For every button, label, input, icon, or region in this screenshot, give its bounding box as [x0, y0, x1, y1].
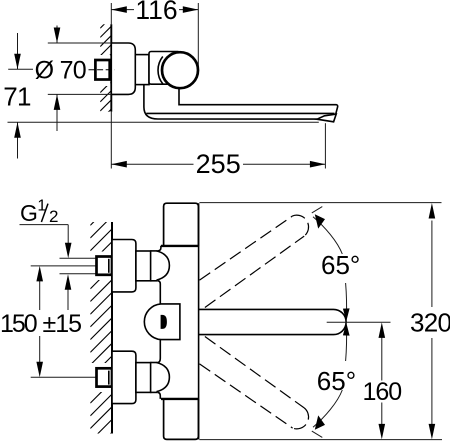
sensor window — [144, 304, 180, 340]
svg-text:116: 116 — [135, 0, 177, 25]
bottom inlet nut (front view) — [97, 368, 113, 386]
top inlet bell — [157, 251, 170, 280]
svg-text:Ø 70: Ø 70 — [35, 57, 86, 85]
body rear flange arc — [158, 57, 163, 84]
wall hatching (side view) — [100, 17, 111, 120]
spout (side view) — [179, 88, 338, 114]
dimension 160 — [362, 322, 401, 439]
nut centerline (side view) — [89, 69, 115, 71]
upper 65 degree arc — [313, 217, 342, 254]
extension line 320/160 bottom — [199, 439, 442, 441]
dimension 71 reference lines — [8, 68, 33, 70]
bottom inlet neck — [136, 363, 151, 393]
spout base and bottom (side view) — [144, 84, 317, 119]
svg-text:255: 255 — [196, 149, 241, 179]
extension line 320 top — [199, 202, 441, 204]
svg-text:2: 2 — [49, 207, 58, 226]
dimension 320 — [410, 203, 450, 439]
dimension 150 +-15 — [0, 266, 81, 377]
top inlet escutcheon (front view) — [112, 240, 136, 292]
dimension 116 — [111, 0, 198, 25]
top inlet neck edges to bell — [150, 250, 157, 252]
svg-text:160: 160 — [362, 378, 401, 406]
hatch cutout around top inlet — [90, 252, 111, 281]
spout centerline — [327, 321, 391, 323]
svg-text:65°: 65° — [321, 250, 360, 280]
wall line (front view) — [111, 222, 113, 434]
plus/minus 15 arrow — [67, 286, 69, 310]
spout (front view) — [199, 309, 347, 334]
svg-text:150: 150 — [0, 310, 37, 338]
bottom cap — [164, 399, 199, 440]
dimension line Ø70 extensions — [48, 42, 112, 44]
wall hatching (front view) — [90, 204, 111, 443]
svg-text:71: 71 — [3, 81, 31, 111]
dimension 255 — [111, 149, 325, 179]
mounting neck (side view) — [135, 55, 149, 85]
top inlet stub reference lines — [60, 257, 97, 259]
mixer body (side view) — [149, 52, 180, 85]
svg-text:±15: ±15 — [43, 310, 82, 338]
aerator tip (side view) — [317, 114, 336, 122]
sensor IR dot — [161, 315, 167, 329]
top inlet nut (front view) — [97, 257, 113, 275]
swivel range lower (dashed) — [200, 364, 293, 428]
G 1/2 label — [20, 198, 58, 227]
G1/2 leader line — [20, 224, 69, 226]
hatch cutout around bottom inlet — [90, 363, 111, 392]
body right edge — [198, 203, 200, 439]
bottom inlet bell — [157, 363, 170, 392]
inlet nut (side view) — [95, 60, 109, 80]
dimension 71 — [3, 33, 31, 159]
top cap — [164, 203, 199, 246]
svg-text:320: 320 — [410, 308, 450, 338]
escutcheon flange (side view) — [111, 43, 135, 94]
top inlet centerline — [31, 265, 97, 267]
extension line 116 right — [197, 3, 199, 68]
body left profile — [158, 246, 161, 251]
svg-text:G: G — [20, 200, 38, 226]
svg-text:65°: 65° — [317, 366, 356, 396]
dimension Ø70 — [35, 26, 86, 132]
spout underside contour — [146, 112, 334, 114]
swivel range upper (dashed) — [200, 216, 293, 280]
bottom inlet escutcheon — [112, 351, 136, 403]
body face circle — [162, 52, 198, 88]
bottom inlet neck edges to bell — [150, 362, 157, 364]
top inlet neck — [136, 251, 151, 281]
wall line (side view) — [110, 24, 112, 111]
extension line 116 left / 255 left (wall axis) — [110, 3, 112, 24]
bottom inlet centerline — [31, 376, 97, 378]
lower 65 degree arc — [313, 390, 342, 427]
hatch cutout around inlet nut — [94, 55, 110, 86]
extension line 255 right — [324, 123, 326, 168]
